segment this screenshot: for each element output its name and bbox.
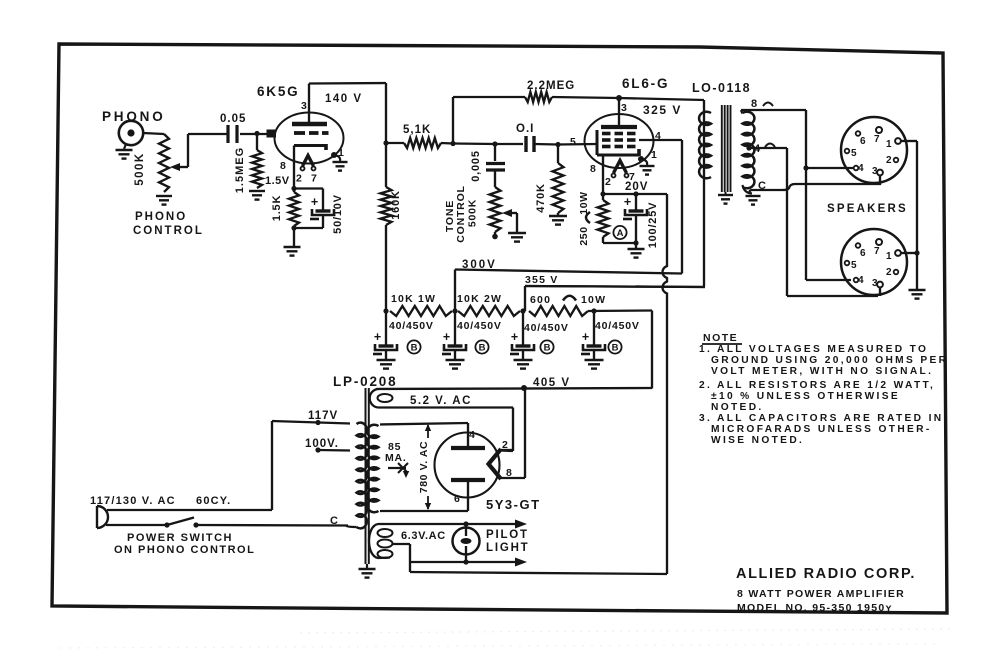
- svg-text:5: 5: [570, 136, 576, 148]
- svg-text:1: 1: [886, 251, 892, 262]
- svg-text:5: 5: [851, 260, 857, 271]
- svg-text:SPEAKERS: SPEAKERS: [827, 203, 908, 215]
- svg-text:8: 8: [506, 467, 512, 479]
- svg-text:ALLIED RADIO CORP.: ALLIED RADIO CORP.: [736, 566, 916, 582]
- svg-text:2: 2: [605, 176, 611, 188]
- svg-text:5,1K: 5,1K: [403, 124, 431, 136]
- svg-text:3: 3: [621, 102, 627, 114]
- svg-text:7: 7: [874, 134, 880, 145]
- svg-text:10W: 10W: [578, 191, 590, 214]
- svg-text:117/130 V. AC: 117/130 V. AC: [90, 495, 176, 507]
- svg-text:10K 1W: 10K 1W: [391, 293, 436, 305]
- svg-text:50/10V: 50/10V: [332, 194, 344, 234]
- svg-text:B: B: [612, 343, 619, 354]
- svg-text:1: 1: [886, 139, 892, 150]
- svg-text:3: 3: [301, 100, 307, 112]
- svg-text:MODEL NO. 95-350 1950ʏ: MODEL NO. 95-350 1950ʏ: [737, 602, 893, 614]
- svg-text:40/450V: 40/450V: [524, 322, 569, 334]
- svg-text:117V: 117V: [308, 410, 338, 422]
- svg-text:7: 7: [874, 246, 880, 257]
- svg-text:4: 4: [754, 143, 761, 155]
- svg-text:NOTE: NOTE: [703, 332, 738, 344]
- svg-text:4: 4: [858, 275, 864, 286]
- svg-text:250: 250: [578, 226, 590, 245]
- svg-text:CONTROL: CONTROL: [455, 185, 467, 243]
- svg-text:PILOT: PILOT: [486, 529, 529, 541]
- svg-text:780 V. AC: 780 V. AC: [418, 441, 430, 494]
- svg-text:0.05: 0.05: [220, 113, 246, 125]
- svg-text:+: +: [624, 195, 631, 209]
- svg-text:40/450V: 40/450V: [389, 320, 434, 332]
- svg-text:2: 2: [886, 155, 892, 166]
- svg-text:100V.: 100V.: [305, 438, 339, 450]
- svg-text:6L6-G: 6L6-G: [622, 76, 669, 91]
- svg-text:LP-0208: LP-0208: [333, 374, 397, 389]
- svg-text:3: 3: [872, 278, 878, 289]
- svg-text:1. ALL VOLTAGES MEASURED TO: 1. ALL VOLTAGES MEASURED TO: [699, 344, 928, 355]
- svg-text:100/25V: 100/25V: [647, 202, 659, 249]
- svg-text:140 V: 140 V: [325, 93, 363, 105]
- svg-text:CONTROL: CONTROL: [133, 225, 204, 237]
- svg-text:10W: 10W: [581, 294, 606, 306]
- svg-text:1: 1: [651, 149, 657, 161]
- svg-text:B: B: [411, 343, 418, 354]
- svg-text:WISE NOTED.: WISE NOTED.: [711, 435, 804, 446]
- svg-text:GROUND USING 20,000 OHMS PER: GROUND USING 20,000 OHMS PER: [711, 355, 948, 366]
- svg-text:60CY.: 60CY.: [196, 495, 231, 507]
- svg-text:3. ALL CAPACITORS ARE RATED IN: 3. ALL CAPACITORS ARE RATED IN: [699, 413, 943, 424]
- svg-text:5: 5: [851, 148, 857, 159]
- svg-text:2: 2: [296, 173, 302, 185]
- svg-text:325 V: 325 V: [643, 103, 682, 117]
- svg-text:O.I: O.I: [516, 123, 534, 135]
- svg-text:MA.: MA.: [385, 452, 407, 464]
- svg-text:6: 6: [860, 136, 866, 147]
- svg-text:5.2 V. AC: 5.2 V. AC: [410, 395, 472, 407]
- svg-text:500K: 500K: [134, 152, 146, 186]
- svg-text:6: 6: [860, 248, 866, 259]
- svg-text:3: 3: [872, 166, 878, 177]
- svg-text:+: +: [511, 330, 518, 344]
- svg-text:355 V: 355 V: [525, 274, 558, 286]
- svg-text:2: 2: [502, 439, 508, 451]
- svg-text:2.2MEG: 2.2MEG: [527, 80, 575, 92]
- svg-text:B: B: [479, 343, 486, 354]
- svg-text:500K: 500K: [467, 199, 479, 227]
- svg-text:10K 2W: 10K 2W: [457, 293, 502, 305]
- svg-text:VOLT METER, WITH NO SIGNAL.: VOLT METER, WITH NO SIGNAL.: [711, 366, 933, 377]
- svg-text:PHONO: PHONO: [135, 211, 187, 223]
- svg-text:+: +: [311, 195, 318, 209]
- svg-text:ON PHONO CONTROL: ON PHONO CONTROL: [114, 544, 255, 556]
- svg-text:1.5MEG: 1.5MEG: [234, 147, 246, 193]
- svg-text:LO-0118: LO-0118: [692, 81, 751, 95]
- svg-text:1.5K: 1.5K: [271, 195, 283, 221]
- svg-text:8 WATT POWER AMPLIFIER: 8 WATT POWER AMPLIFIER: [737, 588, 905, 600]
- svg-text:2: 2: [886, 267, 892, 278]
- svg-text:2. ALL RESISTORS ARE 1/2 WATT,: 2. ALL RESISTORS ARE 1/2 WATT,: [699, 380, 935, 391]
- svg-text:600: 600: [530, 294, 551, 306]
- svg-text:+: +: [443, 330, 450, 344]
- svg-text:1.5V: 1.5V: [265, 175, 290, 187]
- svg-text:7: 7: [311, 173, 317, 185]
- svg-text:8: 8: [280, 160, 286, 172]
- svg-text:MICROFARADS UNLESS OTHER-: MICROFARADS UNLESS OTHER-: [711, 424, 932, 435]
- svg-text:6K5G: 6K5G: [257, 84, 299, 99]
- svg-text:6: 6: [454, 493, 460, 505]
- svg-text:40/450V: 40/450V: [595, 320, 640, 332]
- svg-text:0,005: 0,005: [470, 150, 482, 182]
- svg-text:+: +: [582, 330, 589, 344]
- svg-text:4: 4: [469, 429, 475, 441]
- svg-text:20V: 20V: [625, 181, 648, 193]
- svg-text:6.3V.AC: 6.3V.AC: [401, 530, 446, 542]
- svg-text:B: B: [544, 343, 551, 354]
- svg-text:±10 % UNLESS OTHERWISE: ±10 % UNLESS OTHERWISE: [711, 391, 900, 402]
- svg-text:8: 8: [590, 163, 596, 175]
- svg-text:40/450V: 40/450V: [457, 320, 502, 332]
- svg-text:A: A: [617, 228, 624, 239]
- svg-text:8: 8: [751, 98, 757, 110]
- svg-text:5Y3-GT: 5Y3-GT: [486, 497, 541, 512]
- svg-text:+: +: [374, 330, 381, 344]
- svg-text:NOTED.: NOTED.: [711, 402, 764, 413]
- svg-text:470K: 470K: [535, 183, 547, 213]
- svg-text:LIGHT: LIGHT: [486, 542, 530, 554]
- svg-text:POWER SWITCH: POWER SWITCH: [127, 532, 233, 544]
- svg-text:160K: 160K: [390, 190, 402, 220]
- svg-text:4: 4: [858, 163, 864, 174]
